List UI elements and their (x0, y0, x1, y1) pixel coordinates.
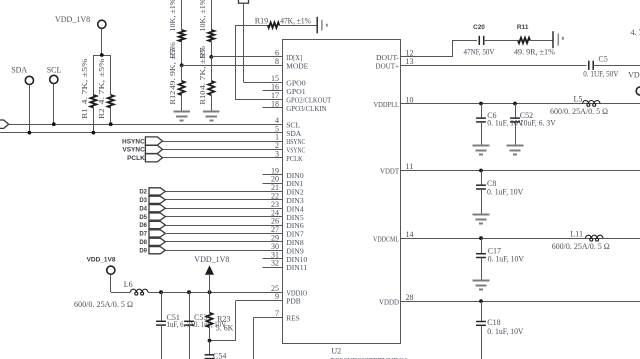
wire U2 pin 12 DOUT- up to C20 (422, 56, 453, 58)
svg-text:4. 7K, ±5%: 4. 7K, ±5% (81, 58, 89, 104)
capacitor C20 47NF coupling (478, 36, 480, 45)
U2 pin 27 DIN7 (stub, number, name) (263, 233, 283, 235)
capacitor C5 0.1UF coupling (588, 61, 590, 70)
inductor L11 600/0.25A ferrite on VDDCML feed (586, 235, 603, 238)
node dots on VDDIO rail (C51, C53, VDD arrow) (159, 290, 163, 294)
wire U2 pin 13 DOUT+ to C5 (422, 65, 587, 67)
svg-text:PDB: PDB (286, 297, 301, 306)
capacitor (polarized, partial) at R19 right (316, 17, 318, 34)
wire HSYNC to U2 pin 1 (162, 141, 262, 143)
ground under C6 (473, 145, 490, 147)
svg-text:VDD_1V8: VDD_1V8 (87, 256, 116, 263)
svg-text:C5: C5 (598, 54, 607, 63)
svg-text:DOUT+: DOUT+ (376, 62, 400, 71)
svg-text:10uF, 6. 3V: 10uF, 6. 3V (520, 118, 556, 127)
wire C5 to right edge (593, 65, 640, 67)
svg-text:R23: R23 (217, 314, 230, 323)
wire PCLK to U2 pin 3 (162, 157, 262, 159)
wire D3 to U2 DIN3 (165, 199, 262, 201)
svg-text:9: 9 (275, 292, 279, 301)
svg-text:18: 18 (271, 99, 279, 108)
svg-text:0. 1uF, 10V: 0. 1uF, 10V (487, 188, 523, 197)
U2 pin 7 RES (stub, number, name) (263, 317, 283, 319)
U2 pin 19 DIN0 (stub, number, name) (263, 174, 283, 176)
svg-text:R19: R19 (255, 17, 268, 26)
node junction VDD_1V8 / R1 / R2 top bar (93, 55, 110, 57)
svg-text:VDDPLL: VDDPLL (374, 100, 400, 109)
svg-text:10K, ±1%: 10K, ±1% (169, 0, 177, 32)
U2 pin 13 DOUT+ (stub, number, name) (401, 65, 422, 67)
capacitor C6 0.1uF bypass (481, 104, 483, 119)
svg-text:600/0. 25A/0. 5 Ω: 600/0. 25A/0. 5 Ω (74, 300, 133, 309)
capacitor C18 0.1uF bypass (cut at bottom) (481, 301, 483, 321)
svg-text:4. 7K, ±5%: 4. 7K, ±5% (199, 46, 207, 90)
U2 pin 2 VSYNC (stub, number, name) (263, 149, 283, 151)
node dots on VDDPLL rail (C6, C52) (479, 102, 483, 106)
wire R23 bottom to U2 pin 9 PDB (210, 340, 236, 342)
capacitor C54 (cut at bottom edge) (209, 341, 211, 355)
U2 pin 14 VDDCML (stub, number, name) (401, 238, 422, 240)
svg-text:49. 9K, ±5%: 49. 9K, ±5% (169, 42, 177, 90)
wire SDA bus to U2 pin 5 (0, 132, 263, 134)
node dots on SCL bus (SCL port, R2) (52, 122, 56, 126)
svg-text:32: 32 (271, 259, 279, 268)
capacitor C8 0.1uF bypass (481, 171, 483, 186)
U2 pin 28 VDDD (stub, number, name) (401, 301, 422, 303)
U2 pin 8 MODE (stub, number, name) (263, 65, 283, 67)
ground under C17 (473, 280, 490, 282)
svg-text:R12: R12 (169, 90, 177, 104)
U2 pin 5 SDA (stub, number, name) (263, 132, 283, 134)
svg-text:28: 28 (406, 293, 414, 302)
resistor R23 5.6K pullup on PDB (209, 292, 211, 313)
svg-text:VSYNC: VSYNC (122, 147, 145, 154)
resistor R1 4.7K pullup (to SDA) (93, 55, 95, 95)
U2 pin 26 DIN6 (stub, number, name) (263, 225, 283, 227)
U2 pin 4 SCL (stub, number, name) (263, 124, 283, 126)
svg-text:D9: D9 (139, 248, 147, 254)
wire junction to U2 pin 6 ID[X] (211, 56, 262, 58)
wire VSYNC to U2 pin 2 (162, 149, 262, 151)
wire U2 pin 10 VDDPLL rail to right edge (422, 103, 640, 105)
svg-text:VDDCML: VDDCML (373, 234, 399, 243)
resistor R7 10K (upper, cut at top) on ID[X] divider (211, 0, 213, 30)
U2 pin 30 DIN9 (stub, number, name) (263, 250, 283, 252)
U2 pin 1 HSYNC (stub, number, name) (263, 141, 283, 143)
U2 pin 3 PCLK (stub, number, name) (263, 157, 283, 159)
svg-text:VDD: VDD (628, 71, 640, 80)
resistor R2 4.7K pullup (to SCL) (110, 55, 112, 95)
svg-text:PCLK: PCLK (127, 155, 145, 162)
IC U2 body (DS90UB923 serializer) rectangle (283, 40, 401, 344)
wire U2 pin 14 VDDCML rail to right edge (422, 238, 640, 240)
U2 pin 23 DIN4 (stub, number, name) (263, 208, 283, 210)
wire R19 left lead down to U2 pin 17 GPO2/CLKOUT (235, 25, 237, 99)
U2 pin 25 VDDIO (stub, number, name) (263, 292, 283, 294)
svg-text:8: 8 (275, 57, 279, 66)
svg-text:R11: R11 (517, 24, 529, 31)
wire junction to U2 pin 8 MODE (182, 65, 263, 67)
svg-text:GPO3/CLKIN: GPO3/CLKIN (286, 104, 327, 113)
resistor R11 49.9R (518, 38, 530, 43)
svg-text:0. 1uF, 10V: 0. 1uF, 10V (487, 118, 523, 127)
svg-text:L6: L6 (124, 280, 133, 289)
svg-text:10: 10 (406, 95, 414, 104)
wire SDA port down to SDA bus (29, 85, 31, 133)
svg-text:U2: U2 (331, 347, 341, 356)
svg-text:SDA: SDA (11, 65, 27, 74)
svg-text:HSYNC: HSYNC (122, 138, 145, 145)
U2 pin 9 PDB (stub, number, name) (263, 300, 283, 302)
node dots on SDA bus (SDA port, R1) (28, 131, 32, 135)
svg-text:R2: R2 (98, 108, 106, 119)
wire D7 to U2 DIN7 (165, 233, 262, 235)
svg-text:D7: D7 (139, 232, 147, 238)
U2 pin 15 GPO0 (stub, number, name) (263, 82, 283, 84)
node dot R23 bottom / C54 (208, 339, 212, 343)
U2 pin 31 DIN10 (stub, number, name) (263, 258, 283, 260)
svg-text:D5: D5 (139, 215, 147, 221)
U2 pin 16 GPO1 (stub, number, name) (263, 90, 283, 92)
resistor R5 10K (upper, cut at top) on MODE divider (181, 0, 183, 30)
wire D9 to U2 DIN9 (165, 250, 262, 252)
svg-text:VDD_1V8: VDD_1V8 (55, 15, 90, 24)
svg-text:10K, ±1%: 10K, ±1% (199, 0, 207, 32)
svg-text:VDD_1V8: VDD_1V8 (194, 255, 229, 264)
wire VDDIO rail to U2 pin 25 (148, 292, 263, 294)
capacitor C51 1uF bypass (161, 292, 163, 321)
svg-text:PCLK: PCLK (286, 154, 303, 163)
svg-text:D6: D6 (139, 223, 147, 229)
svg-text:7: 7 (275, 309, 279, 318)
U2 pin 29 DIN8 (stub, number, name) (263, 241, 283, 243)
ground under C8 (473, 214, 490, 216)
svg-text:C54: C54 (213, 351, 226, 359)
wire C20 to R11 (484, 40, 518, 42)
svg-text:VDDT: VDDT (380, 167, 399, 176)
node dot C8 on VDDT rail (479, 169, 483, 173)
svg-text:D2: D2 (139, 190, 147, 196)
U2 pin 11 VDDT (stub, number, name) (401, 170, 422, 172)
capacitor C17 0.1uF bypass (481, 238, 483, 254)
wire U2 pin 11 VDDT rail to right edge (422, 170, 640, 172)
svg-text:11: 11 (406, 162, 414, 171)
capacitor C53 0.1uF bypass (189, 292, 191, 321)
wire D5 to U2 DIN5 (165, 216, 262, 218)
svg-text:D8: D8 (139, 240, 147, 246)
U2 pin 12 DOUT- (stub, number, name) (401, 56, 422, 58)
resistor R19 47K (235, 25, 268, 27)
wire R5 to R12 junction / node to MODE (181, 42, 183, 66)
svg-text:4. 7: 4. 7 (631, 28, 640, 37)
svg-text:RES: RES (286, 314, 300, 323)
svg-text:5. 6K: 5. 6K (216, 324, 234, 333)
inductor L5 600/0.25A ferrite on VDDPLL feed (583, 101, 600, 104)
capacitor (polarized, partial) at R11 right (552, 31, 554, 48)
svg-text:600/0. 25A/0. 5 Ω: 600/0. 25A/0. 5 Ω (552, 242, 610, 251)
svg-text:L5: L5 (574, 95, 583, 104)
svg-text:DIN11: DIN11 (286, 263, 307, 272)
svg-text:3: 3 (275, 150, 279, 159)
svg-text:R1: R1 (81, 108, 89, 119)
svg-text:L11: L11 (570, 229, 583, 238)
wire R7 to R10 junction / node to ID[X] (211, 42, 213, 57)
svg-text:0. 1uF, 10V: 0. 1uF, 10V (487, 327, 523, 336)
svg-text:4. 7K, ±5%: 4. 7K, ±5% (98, 58, 106, 104)
component stub (cut at top edge) feeding GPO0 (239, 0, 249, 3)
svg-text:13: 13 (406, 57, 414, 66)
svg-text:C18: C18 (487, 318, 500, 327)
svg-text:49. 9R, ±1%: 49. 9R, ±1% (514, 48, 555, 57)
resistor R12 49.9K (lower) to ground (179, 81, 185, 95)
svg-text:47K, ±1%: 47K, ±1% (280, 17, 311, 26)
U2 pin 10 VDDPLL (stub, number, name) (401, 103, 422, 105)
U2 pin 20 DIN1 (stub, number, name) (263, 183, 283, 185)
wire D2 to U2 DIN2 (165, 191, 262, 193)
U2 pin 18 GPO3/CLKIN (stub, number, name) (263, 107, 283, 109)
svg-text:0. 1UF, 50V: 0. 1UF, 50V (583, 69, 618, 78)
svg-text:14: 14 (406, 230, 414, 239)
svg-text:600/0. 25A/0. 5 Ω: 600/0. 25A/0. 5 Ω (550, 107, 608, 116)
wire SCL bus to U2 pin 4 (9, 124, 263, 126)
off-page connector on SCL at left edge (0, 120, 9, 128)
svg-text:D4: D4 (139, 206, 147, 212)
wire D4 to U2 DIN4 (165, 208, 262, 210)
svg-text:47NF, 50V: 47NF, 50V (464, 48, 495, 57)
svg-text:C20: C20 (473, 24, 485, 31)
wire U2 pin 28 VDDD rail to right edge (422, 301, 640, 303)
svg-text:R10: R10 (199, 90, 207, 104)
wire VDD_1V8 down to L6 (110, 274, 112, 292)
U2 pin 17 GPO2/CLKOUT (stub, number, name) (263, 99, 283, 101)
wire D8 to U2 DIN8 (165, 241, 262, 243)
U2 pin 24 DIN5 (stub, number, name) (263, 216, 283, 218)
wire from top stub down to U2 pin 15 GPO0 (243, 3, 245, 82)
U2 pin 32 DIN11 (stub, number, name) (263, 267, 283, 269)
wire D6 to U2 DIN6 (165, 225, 262, 227)
wire U2 pin 7 RES down off bottom edge (254, 317, 263, 319)
node dot C18 on VDDD rail (479, 299, 483, 303)
svg-text:VDDD: VDDD (379, 297, 399, 306)
ground under R12 (173, 111, 190, 113)
svg-text:0. 1uF, 10V: 0. 1uF, 10V (488, 254, 524, 263)
U2 pin 22 DIN3 (stub, number, name) (263, 199, 283, 201)
ground under R10 (203, 111, 220, 113)
svg-text:D3: D3 (139, 198, 147, 204)
node dot C17 on VDDCML rail (479, 236, 483, 240)
svg-text:MODE: MODE (286, 62, 308, 71)
wire VDD_1V8 circle to R1/R2 top bar (101, 29, 103, 56)
inductor L6 600/0.25A ferrite (111, 292, 131, 294)
ground under C52 (507, 145, 524, 147)
wire SCL port down to SCL bus (53, 84, 55, 125)
resistor R10 4.7K (lower) to ground (208, 81, 214, 95)
capacitor C52 10uF bypass (515, 104, 517, 119)
svg-text:SCL: SCL (47, 65, 62, 74)
U2 pin 21 DIN2 (stub, number, name) (263, 191, 283, 193)
U2 pin 6 ID[X] (stub, number, name) (263, 56, 283, 58)
